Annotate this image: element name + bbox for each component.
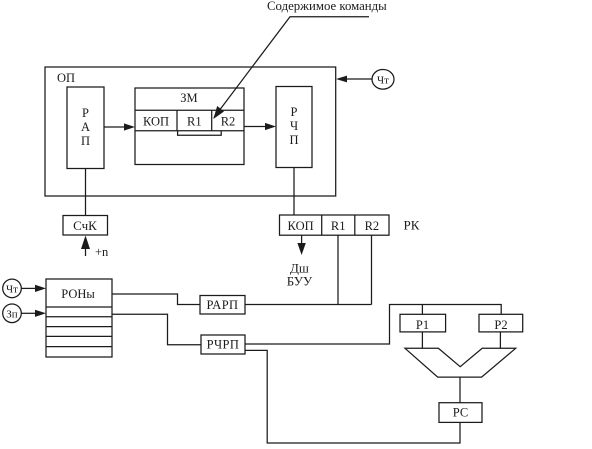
svg-text:Ч: Ч <box>290 119 298 133</box>
register РС <box>439 403 482 423</box>
svg-text:БУУ: БУУ <box>287 274 313 289</box>
selected cell tab under R1 <box>178 131 222 136</box>
register РЧП <box>276 87 312 168</box>
arrow КОП to Дш <box>301 235 303 245</box>
wire Р2 to АЛУ <box>499 332 501 348</box>
wire Чт to РОНы <box>21 287 36 289</box>
svg-text:Зп: Зп <box>6 308 18 320</box>
register РАП <box>67 87 104 169</box>
svg-text:R2: R2 <box>221 115 236 129</box>
block ОП outer box <box>45 67 336 196</box>
svg-text:А: А <box>81 120 90 134</box>
counter СчК <box>63 216 108 236</box>
svg-text:РОНы: РОНы <box>61 287 95 301</box>
svg-text:СчК: СчК <box>73 218 97 233</box>
memory ЗМ <box>135 88 244 165</box>
svg-text:Р: Р <box>291 105 298 119</box>
svg-text:ЗМ: ЗМ <box>180 91 197 105</box>
svg-text:П: П <box>81 134 90 148</box>
+n arrow into СчК <box>85 246 87 256</box>
svg-text:КОП: КОП <box>288 219 314 233</box>
wire bus drop to Р1 <box>421 305 423 315</box>
wire Зп to РОНы <box>21 312 36 314</box>
signal Зп (left circle) <box>3 304 22 323</box>
wire ЗМ to РЧП <box>244 126 265 128</box>
svg-text:РАРП: РАРП <box>207 298 239 312</box>
register РАРП <box>200 296 245 315</box>
svg-text:Чт: Чт <box>377 75 389 87</box>
register Р2 <box>479 314 523 332</box>
signal Чт (left circle) <box>3 279 22 298</box>
wire R2 field down to РАРП bus <box>371 235 373 304</box>
svg-text:КОП: КОП <box>143 115 169 129</box>
arrowhead of leader <box>213 106 224 119</box>
ALU funnel <box>405 348 516 377</box>
svg-text:Содержимое команды: Содержимое команды <box>267 0 387 13</box>
wire РС feedback to РЧРП <box>245 350 460 443</box>
svg-text:R2: R2 <box>365 219 380 233</box>
wire РОНы to РАРП <box>112 294 200 305</box>
wire R1 field down to РАРП bus <box>337 235 339 304</box>
svg-text:Чт: Чт <box>6 283 18 295</box>
wire РЧРП to bus feeding Р1 and Р2 <box>245 305 501 345</box>
register file РОНы <box>46 279 112 357</box>
register РК row <box>280 215 390 235</box>
svg-text:R1: R1 <box>187 115 202 129</box>
wire РАРП to R1/R2 field lines <box>245 304 372 306</box>
register РЧРП <box>201 335 245 354</box>
wire АЛУ to РС <box>459 377 461 403</box>
register Р1 <box>400 314 446 332</box>
svg-text:РС: РС <box>453 406 468 420</box>
command word row КОП/R1/R2 inside ЗМ <box>135 109 244 111</box>
svg-text:ОП: ОП <box>57 71 75 85</box>
wire РАП to ЗМ <box>104 126 124 128</box>
wire РЧП to РК <box>293 168 295 216</box>
wire РАП to СчК <box>85 169 87 216</box>
svg-text:Р1: Р1 <box>416 318 429 332</box>
svg-text:Р: Р <box>82 106 89 120</box>
wire РОНы to РЧРП <box>112 314 201 345</box>
svg-text:+n: +n <box>95 245 109 259</box>
leader wire from label to R1/R2 boundary <box>214 17 369 118</box>
svg-text:РК: РК <box>404 218 420 233</box>
signal Чт (top circle) <box>372 70 394 90</box>
wire Р1 to АЛУ <box>421 332 423 348</box>
svg-text:Р2: Р2 <box>494 318 507 332</box>
svg-text:R1: R1 <box>331 219 346 233</box>
svg-text:РЧРП: РЧРП <box>207 338 240 352</box>
svg-text:П: П <box>289 133 298 147</box>
wire Чт to ОП <box>347 78 373 80</box>
